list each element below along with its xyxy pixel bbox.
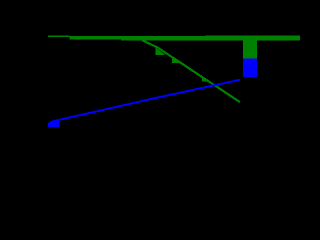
green dip triangle 2 bbox=[172, 58, 180, 63]
blue end blob bbox=[238, 79, 240, 81]
green dip triangle 3 bbox=[202, 77, 207, 81]
green horizontal band: right segment bbox=[121, 36, 205, 41]
green price tag bar bbox=[243, 39, 257, 58]
blue start blob bbox=[48, 119, 60, 127]
green horizontal band: mid segment bbox=[70, 36, 122, 39]
green horizontal band: far right segment bbox=[205, 35, 300, 40]
green dip triangle 0 (at line start) bbox=[143, 40, 147, 42]
blue price tag bar bbox=[243, 59, 257, 77]
green descending line bbox=[142, 40, 240, 102]
blue ascending line bbox=[58, 80, 240, 120]
green dip triangle 1 bbox=[155, 48, 165, 55]
green horizontal line: thin start segment bbox=[48, 35, 70, 37]
